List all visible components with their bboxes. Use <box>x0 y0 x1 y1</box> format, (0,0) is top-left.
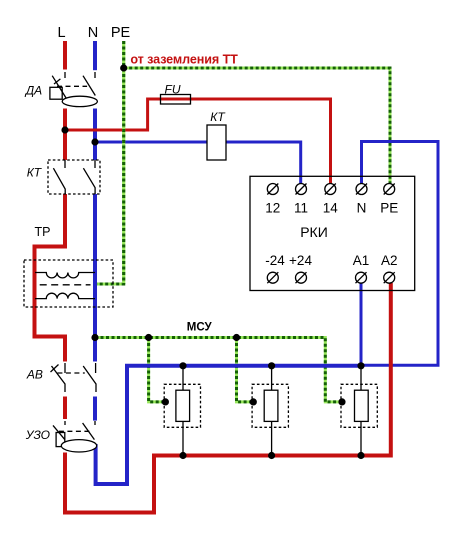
svg-text:КТ: КТ <box>210 110 226 124</box>
svg-text:N: N <box>357 201 367 216</box>
svg-text:ТР: ТР <box>35 225 51 239</box>
svg-text:N: N <box>88 25 98 41</box>
svg-text:от заземления ТТ: от заземления ТТ <box>130 53 238 67</box>
svg-text:РКИ: РКИ <box>300 224 328 240</box>
svg-text:МСУ: МСУ <box>187 322 213 334</box>
svg-text:УЗО: УЗО <box>25 428 50 442</box>
svg-text:14: 14 <box>323 201 339 216</box>
svg-text:АВ: АВ <box>26 367 43 381</box>
svg-text:+24: +24 <box>289 253 312 268</box>
svg-text:A2: A2 <box>381 253 398 268</box>
svg-text:ДА: ДА <box>24 84 42 98</box>
svg-text:FU: FU <box>165 82 181 96</box>
svg-text:12: 12 <box>265 201 280 216</box>
svg-text:PE: PE <box>380 201 398 216</box>
svg-text:L: L <box>57 25 65 41</box>
svg-text:-24: -24 <box>265 253 285 268</box>
svg-text:A1: A1 <box>353 253 370 268</box>
svg-text:PE: PE <box>111 25 131 41</box>
svg-text:11: 11 <box>294 201 308 216</box>
svg-text:КТ: КТ <box>27 166 43 180</box>
